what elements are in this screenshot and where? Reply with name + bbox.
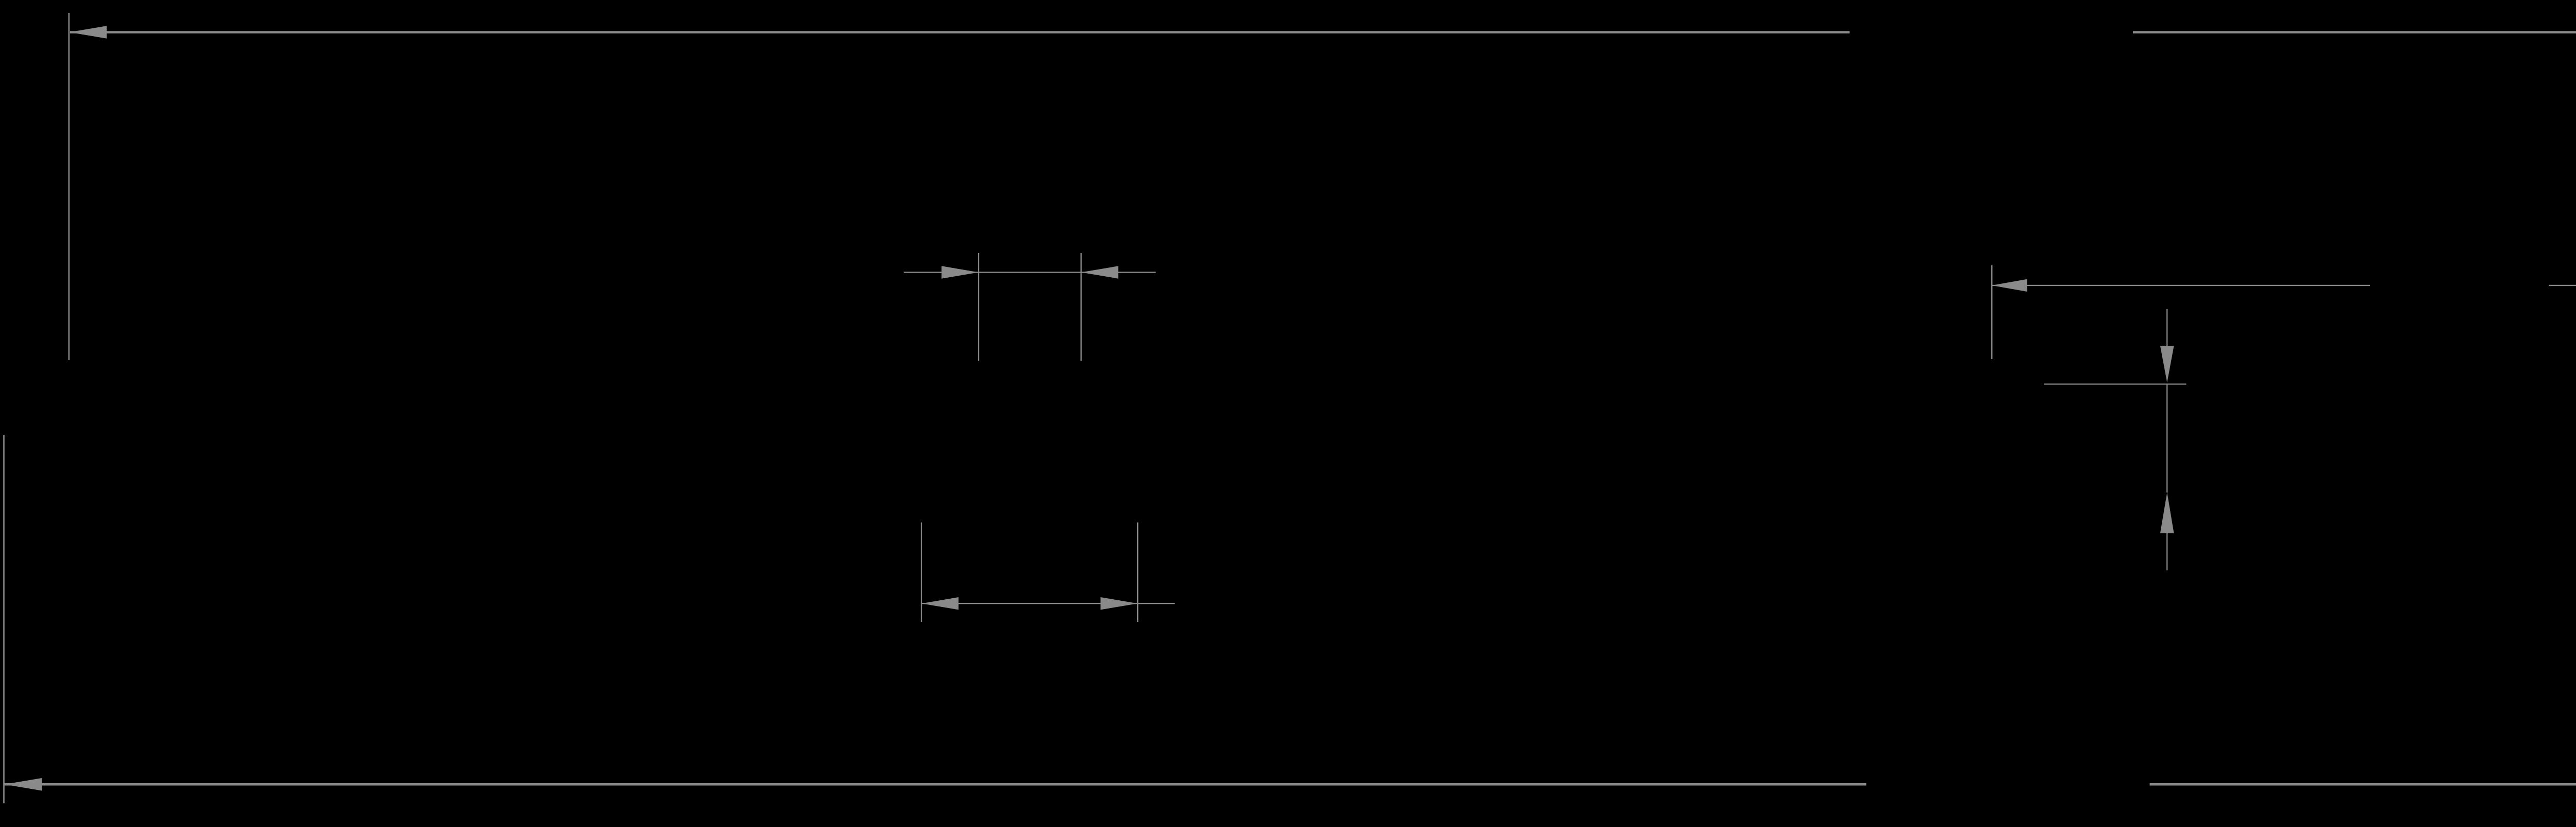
vertical dimension: up arrowhead	[2160, 493, 2174, 533]
bottom dimension: left extension line	[3, 435, 5, 803]
small dimension pair 1: left-pointing arrowhead	[1081, 266, 1118, 278]
right dimension: left extension line	[1991, 265, 1992, 359]
small dimension pair 1: right-pointing arrowhead	[942, 266, 979, 278]
small dimension pair 1: left extension line	[978, 253, 979, 361]
top dimension line right segment	[2133, 31, 2576, 33]
vertical dimension: lower tail line	[2166, 533, 2167, 570]
bottom dimension line left segment	[4, 783, 1866, 786]
vertical dimension: middle span line	[2166, 385, 2167, 493]
small dimension pair 2: dimension line with right tail	[922, 603, 1175, 604]
small dimension pair 1: dimension line with outside leaders	[904, 272, 1156, 273]
bottom dimension line right segment	[2150, 783, 2576, 786]
right dimension line right segment	[2549, 285, 2576, 286]
bottom dimension left arrowhead	[4, 778, 42, 791]
vertical dimension: upper tail line	[2166, 309, 2167, 346]
vertical dimension: horizontal tick line	[2044, 383, 2186, 384]
small dimension pair 1: right extension line	[1080, 253, 1081, 361]
small dimension pair 2: left extension line	[921, 522, 922, 622]
small dimension pair 2: right-pointing arrowhead	[1100, 597, 1138, 610]
top dimension: left extension line	[69, 13, 70, 360]
right dimension line left segment	[1992, 285, 2370, 286]
top dimension left arrowhead	[70, 26, 107, 39]
right dimension left arrowhead	[1992, 279, 2027, 292]
small dimension pair 2: left-pointing arrowhead	[922, 597, 959, 610]
top dimension line left segment	[70, 31, 1850, 33]
vertical dimension: down arrowhead	[2160, 346, 2174, 383]
small dimension pair 2: right extension line	[1137, 522, 1138, 622]
